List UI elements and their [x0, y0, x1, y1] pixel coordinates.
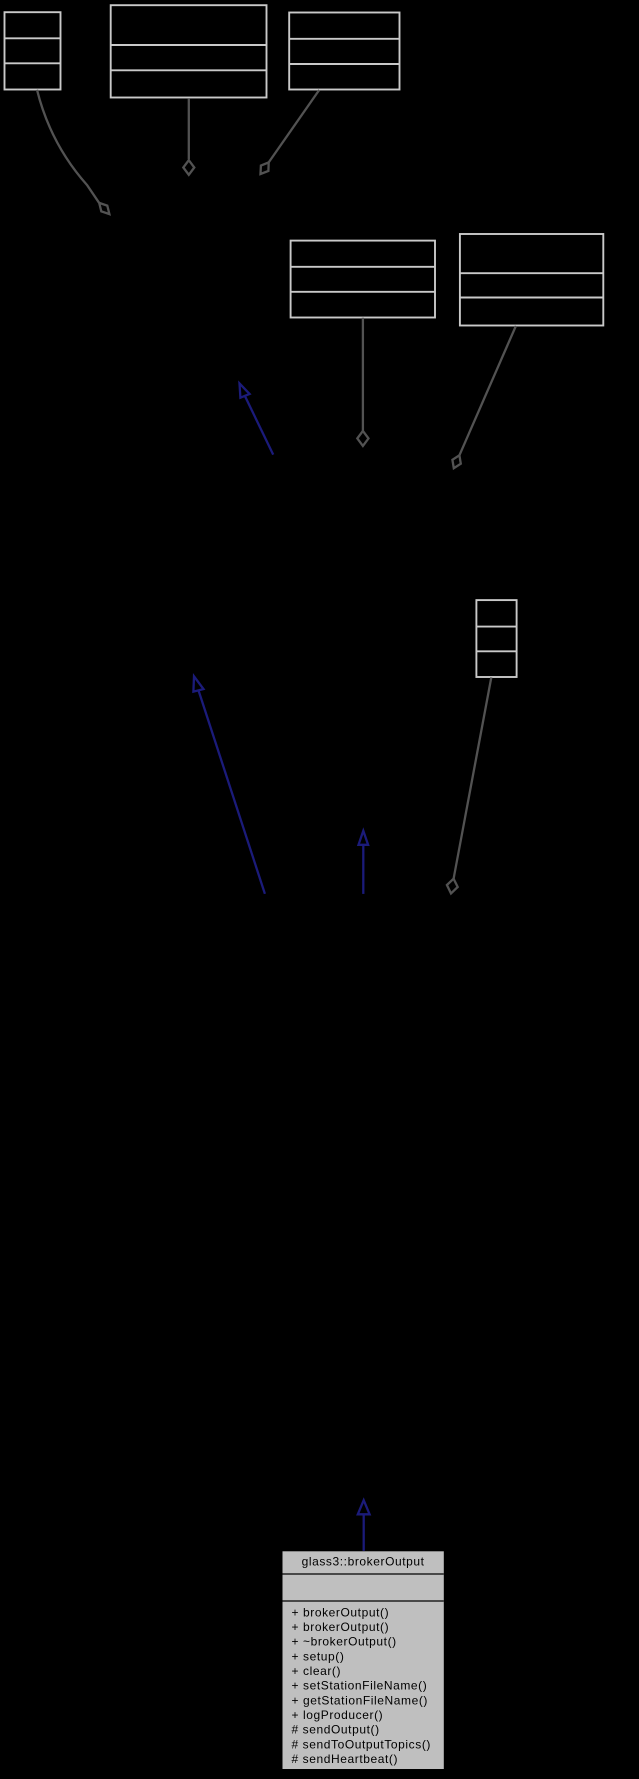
aggregation edge D (box4 to hidden node) — [357, 318, 368, 446]
class node box4 (middle-left) — [291, 241, 435, 318]
svg-text:glass3::brokerOutput: glass3::brokerOutput — [302, 1555, 425, 1569]
class node box6 (small) — [476, 600, 516, 677]
inheritance arrow 3 (blue, short vertical) — [359, 831, 369, 894]
highlighted node glass3::brokerOutput — [283, 1551, 444, 1769]
svg-text:+ getStationFileName(): + getStationFileName() — [292, 1693, 428, 1707]
aggregation edge C (box3 to hidden node) — [261, 90, 320, 174]
class node box2 (top-middle) — [111, 5, 267, 97]
aggregation edge F (box6 to hidden node) — [447, 677, 491, 893]
class node box1 (top-left) — [5, 12, 61, 89]
aggregation edge B (box2 to hidden node) — [183, 98, 194, 175]
svg-text:+ brokerOutput(): + brokerOutput() — [292, 1605, 390, 1619]
svg-text:+ brokerOutput(): + brokerOutput() — [292, 1620, 390, 1634]
svg-text:+ setup(): + setup() — [292, 1649, 345, 1663]
svg-text:+ setStationFileName(): + setStationFileName() — [292, 1679, 428, 1693]
svg-text:+ ~brokerOutput(): + ~brokerOutput() — [292, 1635, 397, 1649]
aggregation edge A (box1 to hidden node) — [37, 90, 109, 214]
aggregation edge E (box5 to hidden node) — [452, 326, 516, 468]
svg-text:# sendHeartbeat(): # sendHeartbeat() — [292, 1752, 399, 1766]
svg-text:+ logProducer(): + logProducer() — [292, 1708, 384, 1722]
inheritance arrow 1 (blue, upper) — [240, 383, 274, 454]
class node box3 (top-right) — [289, 13, 399, 90]
class node box5 (middle-right) — [460, 234, 603, 326]
svg-text:# sendToOutputTopics(): # sendToOutputTopics() — [292, 1737, 432, 1751]
svg-text:# sendOutput(): # sendOutput() — [292, 1723, 380, 1737]
inheritance arrow 4 (blue, above brokerOutput) — [358, 1500, 370, 1551]
inheritance arrow 2 (blue, long) — [193, 676, 265, 894]
svg-text:+ clear(): + clear() — [292, 1664, 342, 1678]
